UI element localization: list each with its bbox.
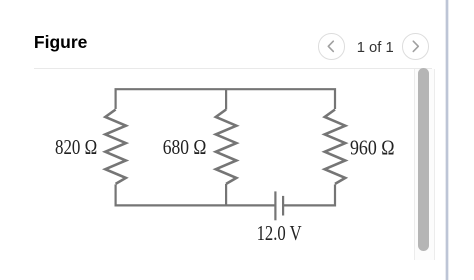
svg-text:960 Ω: 960 Ω: [350, 137, 395, 160]
svg-text:680 Ω: 680 Ω: [163, 136, 207, 159]
svg-text:12.0 V: 12.0 V: [257, 222, 302, 245]
svg-text:820 Ω: 820 Ω: [55, 136, 97, 159]
